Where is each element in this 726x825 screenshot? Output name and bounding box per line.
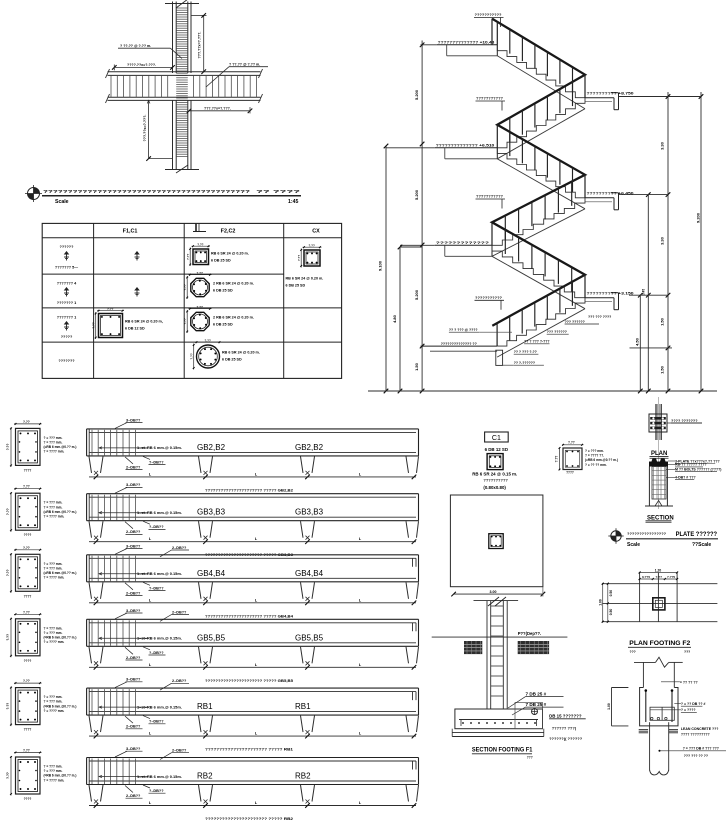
svg-text:Scale: Scale [55, 199, 69, 205]
svg-text:??????? 1: ??????? 1 [57, 316, 76, 320]
svg-text:GB2,B2: GB2,B2 [295, 443, 324, 452]
svg-text:?.??: ?.?? [190, 353, 194, 359]
svg-text:??????????????????????????????: ????????????????????????????????????????… [43, 189, 251, 194]
svg-text:1–st–RB 6 mm.@ 0.15m.: 1–st–RB 6 mm.@ 0.15m. [137, 510, 182, 515]
svg-text:????.??x=?.???.: ????.??x=?.???. [127, 63, 156, 67]
svg-text:? = ??? mm.: ? = ??? mm. [44, 765, 63, 769]
svg-text:?.??: ?.?? [23, 546, 30, 550]
svg-text:????: ???? [24, 728, 32, 732]
svg-text:?.??: ?.?? [183, 284, 187, 290]
svg-text:9.100: 9.100 [378, 260, 383, 271]
svg-text:6 DB 12 SD: 6 DB 12 SD [125, 327, 145, 331]
svg-text:?.??: ?.?? [656, 575, 663, 579]
svg-text:?.??: ?.?? [197, 242, 203, 246]
svg-text:?.??: ?.?? [205, 338, 211, 342]
svg-text:3.30: 3.30 [660, 236, 665, 245]
svg-text:6 DB 25 SD: 6 DB 25 SD [286, 284, 306, 288]
svg-text:RB 6 SR 24 @ 0.20 m.: RB 6 SR 24 @ 0.20 m. [211, 252, 249, 256]
svg-text:?.??: ?.?? [107, 307, 113, 311]
svg-text:??????? 1: ??????? 1 [57, 301, 76, 305]
svg-text:???: ??? [630, 650, 636, 654]
svg-text:4.80: 4.80 [392, 314, 397, 323]
svg-text:? = ???? mm.: ? = ???? mm. [44, 450, 65, 454]
svg-text:2 RB 6 SR 24 @ 0.20 m.: 2 RB 6 SR 24 @ 0.20 m. [213, 316, 254, 320]
svg-text:? = ??? mm.: ? = ??? mm. [44, 501, 63, 505]
svg-text:? = ???? ??.: ? = ???? ??. [585, 454, 604, 458]
svg-text:???.??x=?.???.: ???.??x=?.???. [204, 107, 231, 111]
svg-text:?.??: ?.?? [297, 255, 301, 261]
svg-text:? = ????: ? = ???? [681, 708, 696, 712]
svg-text:?????????????: ????????????? [436, 241, 489, 245]
svg-text:RB 6 SR 24 @ 0.15 m.: RB 6 SR 24 @ 0.15 m. [472, 471, 517, 476]
svg-text:?.??: ?.?? [309, 243, 315, 247]
svg-text:1.00: 1.00 [598, 599, 602, 606]
svg-text:2–DB??: 2–DB?? [172, 749, 187, 753]
svg-text:2–DB??: 2–DB?? [126, 591, 141, 595]
svg-text:?.??: ?.?? [6, 569, 10, 576]
svg-text:?????????????? ??: ?????????????? ?? [441, 342, 477, 346]
svg-text:2–DB??: 2–DB?? [172, 610, 187, 614]
svg-text:? = ??? mm.: ? = ??? mm. [44, 626, 63, 630]
svg-text:?.??: ?.?? [92, 322, 96, 328]
svg-text:F1,C1: F1,C1 [123, 228, 138, 234]
svg-text:3–DB??: 3–DB?? [126, 483, 141, 487]
svg-text:?.??: ?.?? [568, 441, 575, 445]
svg-text:RB 6 SR 24 @ 0.20 m,: RB 6 SR 24 @ 0.20 m, [125, 320, 163, 324]
svg-text:? = ???? mm.: ? = ???? mm. [44, 576, 65, 580]
svg-text:6 DB 25 SD: 6 DB 25 SD [211, 259, 231, 263]
svg-text:(=RB 6 mm.@0.?? m.): (=RB 6 mm.@0.?? m.) [44, 445, 77, 449]
svg-text:??? ??? ????: ??? ??? ???? [588, 315, 611, 319]
svg-text:?–DB??: ?–DB?? [149, 651, 164, 655]
svg-text:2–DB??: 2–DB?? [172, 679, 187, 683]
svg-text:GB3,B3: GB3,B3 [295, 508, 324, 517]
svg-text:?–DB??: ?–DB?? [149, 789, 164, 793]
svg-text:7 DB 25 #: 7 DB 25 # [526, 691, 547, 696]
svg-text:2–DB??: 2–DB?? [126, 656, 141, 660]
svg-text:? ??.?? @ ?.?? m.: ? ??.?? @ ?.?? m. [229, 63, 260, 67]
svg-text:? ??.?? @ ?.?? m.: ? ??.?? @ ?.?? m. [120, 44, 151, 48]
svg-text:?.??5: ?.??5 [667, 575, 676, 579]
svg-text:3.30: 3.30 [660, 141, 665, 150]
svg-text:?? ????: ?? ???? [256, 189, 301, 194]
svg-text:?–DB??: ?–DB?? [149, 586, 164, 590]
svg-text:? = ??? mm.: ? = ??? mm. [44, 505, 63, 509]
svg-text:(=RB 6 mm.@0.?? m.): (=RB 6 mm.@0.?? m.) [44, 774, 77, 778]
svg-text:GB4,B4: GB4,B4 [197, 569, 226, 578]
svg-text:?.??: ?.?? [23, 749, 30, 753]
svg-text:= ?? ?? ??: = ?? ?? ?? [680, 680, 698, 684]
svg-text:? = ??? mm.: ? = ??? mm. [44, 700, 63, 704]
svg-text:???.??x=?.???.: ???.??x=?.???. [198, 32, 202, 59]
svg-text:? = ??? mm.: ? = ??? mm. [44, 441, 63, 445]
svg-text:6 DB 12 SD: 6 DB 12 SD [485, 447, 508, 452]
svg-text:?.??: ?.?? [555, 456, 559, 463]
svg-text:? = ???? mm.: ? = ???? mm. [44, 640, 65, 644]
svg-text:??? ??? ?? ??: ??? ??? ?? ?? [684, 754, 708, 758]
svg-text:??? ??????: ??? ?????? [547, 330, 567, 334]
svg-text:?????????????? +6.510: ?????????????? +6.510 [436, 144, 495, 148]
svg-text:?.??: ?.?? [23, 610, 30, 614]
svg-text:2–DB??: 2–DB?? [126, 530, 141, 534]
svg-text:F2,C2: F2,C2 [221, 228, 236, 234]
svg-text:???????????: ??????????? [475, 296, 502, 300]
svg-text:?–DB??: ?–DB?? [149, 525, 164, 529]
svg-text:1–st–RB 6 mm.@ 0.15m.: 1–st–RB 6 mm.@ 0.15m. [137, 636, 182, 641]
svg-text:?.??: ?.?? [6, 443, 10, 450]
svg-text:?????????????????????? ????? R: ?????????????????????? ????? RB2 [205, 816, 294, 821]
svg-text:3–DB??: 3–DB?? [126, 418, 141, 422]
svg-text:?.??: ?.?? [23, 485, 30, 489]
svg-text:Scale: Scale [627, 542, 640, 548]
svg-text:0.??5: 0.??5 [642, 575, 650, 579]
svg-text:? = ??? mm.: ? = ??? mm. [44, 566, 63, 570]
svg-text:? = ??? mm.: ? = ??? mm. [44, 631, 63, 635]
svg-text:2 RB 6 SR 24 @ 0.20 m.: 2 RB 6 SR 24 @ 0.20 m. [213, 282, 254, 286]
svg-text:1.50: 1.50 [660, 365, 665, 374]
svg-text:?.??: ?.?? [6, 508, 10, 515]
svg-text:?????? ???(: ?????? ???( [552, 725, 577, 730]
svg-text:(=RB 6 mm.@0.?? m.): (=RB 6 mm.@0.?? m.) [44, 510, 77, 514]
svg-text:???? ???????: ???? ??????? [671, 419, 698, 423]
svg-text:? = ?? ?? mm.: ? = ?? ?? mm. [585, 463, 607, 467]
svg-text:?????????????????????? ????? G: ?????????????????????? ????? GB4,B4 [205, 613, 294, 618]
svg-text:?.??: ?.?? [183, 318, 187, 324]
svg-text:(=RB 6 mm.@0.?? m.): (=RB 6 mm.@0.?? m.) [585, 458, 618, 462]
svg-text:????: ???? [24, 533, 32, 537]
svg-text:C1: C1 [492, 435, 501, 442]
svg-text:?????????? +8.750: ?????????? +8.750 [587, 92, 634, 96]
svg-text:1.00: 1.00 [607, 703, 611, 710]
svg-text:?–DB??: ?–DB?? [149, 460, 164, 464]
svg-text:(=RB 6 mm.@0.?? m.): (=RB 6 mm.@0.?? m.) [44, 571, 77, 575]
svg-text:1–st–RB 6 mm.@ 0.15m.: 1–st–RB 6 mm.@ 0.15m. [137, 774, 182, 779]
svg-text:??Scale: ??Scale [692, 542, 711, 548]
svg-text:PLAN FOOTING F2: PLAN FOOTING F2 [629, 640, 690, 647]
svg-text:?????????????????????? ????? G: ?????????????????????? ????? GB2,B2 [205, 487, 294, 492]
svg-text:GB2,B2: GB2,B2 [197, 443, 226, 452]
svg-text:1–st–RB 6 mm.@ 0.15m.: 1–st–RB 6 mm.@ 0.15m. [137, 445, 182, 450]
svg-text:????: ???? [24, 468, 32, 472]
svg-text:?.??: ?.?? [6, 634, 10, 641]
svg-text:???: ??? [684, 650, 690, 654]
svg-text:3–DB??: 3–DB?? [126, 609, 141, 613]
svg-text:RB 6 SR 24 @ 0.20 m.: RB 6 SR 24 @ 0.20 m. [286, 277, 324, 281]
svg-text:2–DB??: 2–DB?? [126, 465, 141, 469]
svg-text:SECTION: SECTION [647, 515, 674, 521]
svg-text:6 DB 25 SD: 6 DB 25 SD [222, 358, 242, 362]
svg-text:?????????????????????? ????? R: ?????????????????????? ????? RB1 [205, 747, 294, 752]
svg-text:1.50: 1.50 [660, 317, 665, 326]
svg-text:? = ???? mm.: ? = ???? mm. [44, 709, 65, 713]
svg-text:? = ??? mm.: ? = ??? mm. [585, 449, 604, 453]
svg-text:LEAN CONCRETE ???: LEAN CONCRETE ??? [681, 727, 719, 731]
svg-text:??????? 4: ??????? 4 [57, 282, 77, 286]
svg-text:0.45: 0.45 [641, 289, 645, 295]
svg-text:? = ??? mm.: ? = ??? mm. [44, 769, 63, 773]
svg-text:?? ? ??? ?-???: ?? ? ??? ?-??? [524, 340, 549, 344]
svg-text:1.20: 1.20 [655, 568, 662, 572]
svg-text:DB 15 ???????: DB 15 ??????? [549, 714, 582, 719]
svg-text:?.??: ?.?? [6, 703, 10, 710]
svg-text:? = ??? mm.: ? = ??? mm. [44, 695, 63, 699]
svg-text:9.200: 9.200 [696, 212, 701, 223]
svg-text:????: ???? [24, 659, 32, 663]
svg-text:GB5,B5: GB5,B5 [197, 633, 226, 642]
svg-text:3–DB??: 3–DB?? [126, 678, 141, 682]
svg-text:?? ?-??????: ?? ?-?????? [514, 361, 535, 365]
svg-text:? = ??? DB # ??? ???: ? = ??? DB # ??? ??? [683, 746, 719, 750]
svg-text:RB-?? ????? ????: RB-?? ????? ???? [675, 463, 707, 467]
svg-text:?????????? +3.150: ?????????? +3.150 [587, 292, 634, 296]
svg-text:???? ?????????: ???? ????????? [681, 733, 710, 737]
svg-text:????: ???? [24, 797, 32, 801]
svg-text:????: ???? [24, 594, 32, 598]
svg-text:6 DB 25 SD: 6 DB 25 SD [213, 323, 233, 327]
svg-text:1:45: 1:45 [288, 199, 298, 205]
svg-text:(=RB 6 mm.@0.?? m.): (=RB 6 mm.@0.?? m.) [44, 636, 77, 640]
svg-text:5.200: 5.200 [414, 289, 419, 300]
svg-text:? = ?? DB ?? #: ? = ?? DB ?? # [681, 702, 706, 706]
svg-text:0.50: 0.50 [609, 609, 613, 616]
svg-text:?.??: ?.?? [186, 253, 190, 259]
svg-text:6 DB 25 SD: 6 DB 25 SD [213, 289, 233, 293]
svg-text:3.00: 3.00 [490, 590, 497, 594]
svg-text:GB4,B4: GB4,B4 [295, 569, 324, 578]
svg-text:P??(Dep??.: P??(Dep??. [518, 631, 542, 636]
svg-text:?.??: ?.?? [23, 420, 30, 424]
svg-text:??????(( ??????: ??????(( ?????? [549, 736, 583, 741]
svg-text:???.??x=?.???.: ???.??x=?.???. [143, 115, 147, 142]
svg-text:4-DB? # ???: 4-DB? # ??? [675, 476, 696, 480]
svg-text:CX: CX [312, 228, 320, 234]
svg-text:???????????: ??????????? [475, 13, 502, 17]
svg-text:??? ??????: ??? ?????? [565, 320, 585, 324]
svg-text:???: ??? [527, 755, 533, 759]
svg-text:?.??: ?.?? [197, 271, 203, 275]
svg-text:?????????????? +10.48: ?????????????? +10.48 [438, 41, 495, 45]
svg-text:?.??: ?.?? [23, 679, 30, 683]
svg-text:?????: ????? [61, 335, 73, 339]
svg-text:RB 6 SR 24 @ 0.20 m.: RB 6 SR 24 @ 0.20 m. [222, 351, 260, 355]
svg-text:???????????: ??????????? [476, 97, 503, 101]
svg-text:SECTION FOOTING F1: SECTION FOOTING F1 [472, 747, 533, 754]
svg-text:????: ???? [566, 471, 574, 475]
svg-text:?.??: ?.?? [197, 305, 203, 309]
svg-text:2–DB??: 2–DB?? [172, 546, 187, 550]
svg-text:???????: ??????? [58, 359, 75, 363]
svg-text:???????????: ??????????? [476, 195, 503, 199]
svg-text:3–DB??: 3–DB?? [126, 747, 141, 751]
svg-text:M ?? BOLTS ?????? (????): M ?? BOLTS ?????? (????) [675, 468, 721, 472]
svg-text:2–DB??: 2–DB?? [126, 725, 141, 729]
svg-text:GB3,B3: GB3,B3 [197, 508, 226, 517]
svg-text:? = ??? mm.: ? = ??? mm. [44, 436, 63, 440]
svg-text:2–DB??: 2–DB?? [126, 794, 141, 798]
svg-text:(=RB 6 mm.@0.?? m.): (=RB 6 mm.@0.?? m.) [44, 704, 77, 708]
svg-text:(0.80x0.80): (0.80x0.80) [483, 485, 506, 490]
svg-text:GB5,B5: GB5,B5 [295, 633, 324, 642]
svg-text:??????: ?????? [60, 245, 75, 249]
svg-text:7 DB 25 #: 7 DB 25 # [526, 702, 547, 707]
svg-text:?–DB??: ?–DB?? [149, 720, 164, 724]
svg-text:? = ???? mm.: ? = ???? mm. [44, 515, 65, 519]
svg-text:PLATE ??????: PLATE ?????? [676, 531, 718, 538]
svg-text:RB1: RB1 [295, 702, 311, 711]
svg-text:3–DB??: 3–DB?? [126, 544, 141, 548]
svg-text:? = ???? mm.: ? = ???? mm. [44, 778, 65, 782]
svg-text:??????? 5—: ??????? 5— [55, 266, 78, 270]
svg-text:????????????????: ???????????????? [627, 531, 667, 536]
svg-text:? = ??? mm.: ? = ??? mm. [44, 562, 63, 566]
svg-text:4.50: 4.50 [634, 337, 639, 346]
svg-text:5.200: 5.200 [414, 89, 419, 100]
svg-text:5.200: 5.200 [414, 189, 419, 200]
svg-text:1–st–RB 6 mm.@ 0.15m.: 1–st–RB 6 mm.@ 0.15m. [137, 571, 182, 576]
svg-text:?? ? ??? @ ????: ?? ? ??? @ ???? [449, 328, 478, 332]
svg-text:1–st–RB 6 mm.@ 0.15m.: 1–st–RB 6 mm.@ 0.15m. [137, 704, 182, 709]
svg-text:RB2: RB2 [295, 772, 311, 781]
svg-text:RB1: RB1 [197, 702, 213, 711]
svg-text:1.50: 1.50 [414, 362, 419, 371]
svg-text:?.??: ?.?? [6, 772, 10, 779]
svg-text:??????????: ?????????? [483, 477, 508, 482]
svg-text:?? ? ??? ?.??: ?? ? ??? ?.?? [514, 350, 537, 354]
svg-text:0.50: 0.50 [609, 590, 613, 597]
svg-text:RB2: RB2 [197, 772, 213, 781]
svg-text:?????????????????????? ????? G: ?????????????????????? ????? GB5,B5 [205, 678, 294, 683]
